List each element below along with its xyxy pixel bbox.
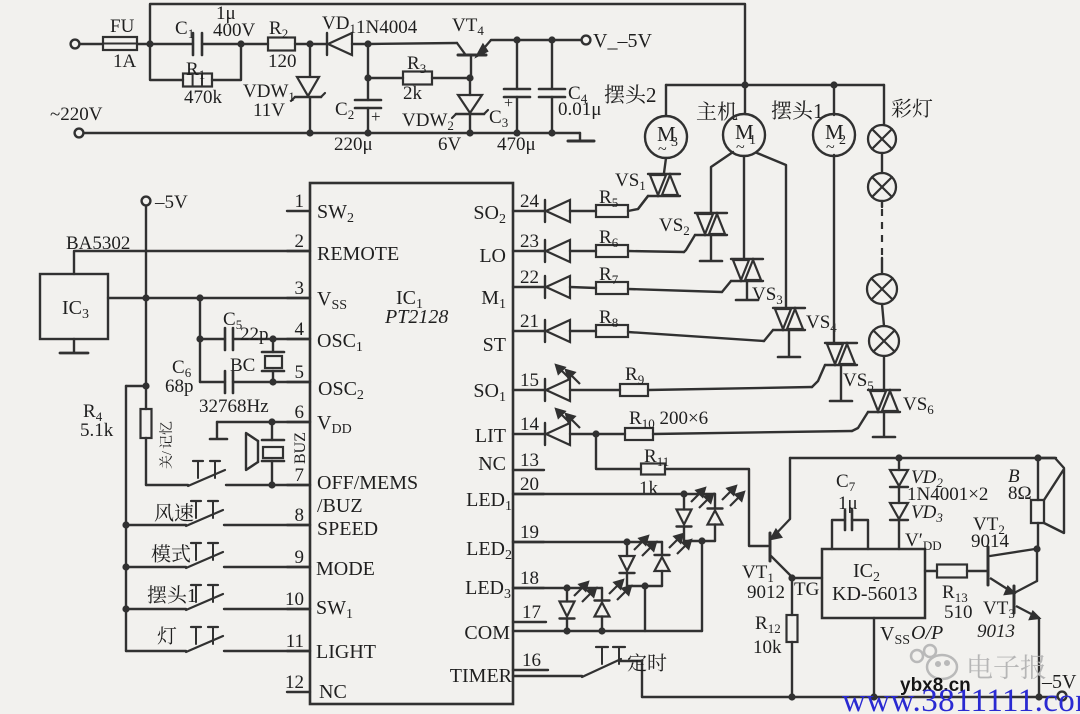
svg-text:470k: 470k — [184, 87, 223, 108]
resistor R5 — [596, 205, 628, 217]
wire — [881, 153, 883, 173]
capacitor C5 22p — [233, 338, 310, 340]
wire pair1 to COM rail — [701, 541, 703, 631]
svg-text:3: 3 — [295, 278, 305, 299]
svg-text:68p: 68p — [165, 376, 194, 397]
capacitor C1 — [192, 33, 195, 55]
svg-text:13: 13 — [520, 450, 539, 471]
triac VS6 — [868, 389, 900, 391]
svg-text:V_–5V: V_–5V — [593, 30, 652, 52]
zener VDW1 11V — [309, 44, 311, 76]
svg-text:ST: ST — [483, 334, 506, 356]
svg-text:22: 22 — [520, 267, 539, 288]
svg-text:COM: COM — [464, 622, 510, 644]
pin 14 stub — [513, 433, 544, 435]
watermark dian-zi-bao text — [969, 654, 1045, 679]
svg-text:3: 3 — [671, 135, 678, 150]
pin 1 stub — [287, 210, 310, 212]
triac VS4 — [757, 153, 786, 308]
svg-text:11V: 11V — [253, 100, 285, 121]
svg-text:/: / — [160, 451, 175, 455]
svg-text:REMOTE: REMOTE — [317, 243, 399, 265]
label bai-tou-1 (oscillate 1) — [772, 99, 824, 123]
svg-text:O/P: O/P — [911, 622, 943, 644]
resistor R4 5.1k — [145, 386, 147, 409]
svg-text:1A: 1A — [113, 51, 137, 72]
wire VSS branch vertical — [199, 298, 201, 382]
zener VDW2 6V — [469, 78, 471, 95]
pin 12 stub — [287, 691, 310, 693]
svg-text:22p: 22p — [240, 324, 269, 345]
svg-text:19: 19 — [520, 522, 539, 543]
wire IC3 to REMOTE pin2 — [74, 251, 310, 274]
resistor R10 — [625, 428, 653, 440]
pin 10 stub — [287, 608, 310, 610]
resistor R8 — [596, 325, 628, 337]
triac VS3 — [743, 156, 745, 259]
svg-text:400V: 400V — [213, 20, 256, 41]
node: R3/VT4 base/VDW2 junction — [466, 74, 473, 81]
svg-text:7: 7 — [295, 465, 305, 486]
LED pair 1 — [683, 494, 685, 510]
pin 19 stub — [513, 541, 544, 543]
svg-text:2: 2 — [295, 231, 305, 252]
svg-text:14: 14 — [520, 414, 540, 435]
label mo-shi (mode) — [152, 544, 191, 562]
terminal -5V bottom right — [1058, 692, 1067, 701]
pin 21 stub — [513, 330, 544, 332]
pin 13 stub — [513, 469, 544, 471]
switch timer (ding-shi) — [582, 659, 621, 677]
resistor R7 — [596, 282, 628, 294]
node: C3 on rail — [513, 129, 520, 136]
lamp 1 — [868, 125, 896, 153]
svg-text:32768Hz: 32768Hz — [199, 396, 269, 417]
svg-text:MODE: MODE — [316, 558, 375, 580]
svg-text:2: 2 — [839, 133, 846, 148]
svg-text:17: 17 — [522, 602, 541, 623]
speaker B 8ohm — [1034, 454, 1041, 461]
capacitor C7 1u — [832, 520, 845, 549]
label feng-su (speed) — [155, 503, 194, 521]
svg-text:KD-56013: KD-56013 — [832, 583, 918, 605]
svg-text:/BUZ: /BUZ — [317, 495, 363, 517]
node buzzer to pin7 — [268, 481, 275, 488]
diode row pin21 — [544, 320, 546, 342]
svg-text:PT2128: PT2128 — [384, 306, 448, 328]
pin 23 stub — [513, 250, 544, 252]
svg-text:10k: 10k — [753, 637, 782, 658]
svg-text:5.1k: 5.1k — [80, 420, 114, 441]
pin 3 stub — [287, 297, 310, 299]
svg-text:TIMER: TIMER — [450, 665, 513, 687]
svg-text:2k: 2k — [403, 83, 423, 104]
switch light — [126, 650, 186, 652]
ground stub IC3 — [73, 339, 75, 352]
wire — [882, 304, 884, 326]
pin 16 stub — [513, 669, 548, 671]
wire: VT4 emitter to -5V terminal — [491, 39, 581, 41]
svg-text:www.3811111.com: www.3811111.com — [842, 683, 1080, 714]
svg-text:5: 5 — [295, 362, 305, 383]
wire VDD pin6 — [217, 421, 310, 423]
pin 8 stub — [287, 524, 310, 526]
wire C1 to node — [202, 43, 241, 45]
wire top rail of audio section — [790, 457, 1056, 459]
lamp 2 — [868, 173, 896, 201]
watermark panda logo — [911, 645, 957, 679]
node VSS/C5 branch — [196, 294, 203, 301]
svg-text:9: 9 — [295, 547, 305, 568]
op-amp U3: IC3 receiver — [40, 274, 108, 339]
pin 2 stub — [287, 250, 310, 252]
wire COM rail pin17 — [513, 630, 702, 632]
wire -5V vertical — [145, 206, 147, 386]
wire VS6 lower terminal — [883, 412, 885, 436]
diode row pin23 — [544, 240, 546, 262]
pin 18 stub — [513, 587, 544, 589]
svg-text:~: ~ — [826, 139, 835, 156]
label ding-shi (timer) — [628, 653, 667, 671]
node: VD1 cathode / C2 junction — [364, 40, 371, 47]
wire VS5 lower terminal — [840, 365, 842, 400]
node: main rail joins motor rail — [741, 81, 748, 88]
resistor R13 510 — [925, 570, 937, 572]
wire fuse to node — [137, 43, 193, 45]
svg-text:6: 6 — [295, 402, 305, 423]
transistor VT2 9014 — [987, 547, 990, 585]
switch speed — [122, 521, 129, 528]
node pair3 right on rail — [598, 627, 605, 634]
svg-text:SPEED: SPEED — [317, 518, 378, 540]
switch swing — [122, 605, 129, 612]
label bai-tou-1 (swing) — [148, 585, 197, 607]
pin 11 stub — [287, 650, 310, 652]
svg-text:15: 15 — [520, 370, 539, 391]
resistor R9 — [620, 384, 648, 396]
wire dashed lamp chain — [881, 201, 883, 207]
svg-text:1: 1 — [295, 191, 305, 212]
svg-text:~: ~ — [658, 141, 667, 158]
wire IC2 ground — [873, 618, 875, 697]
motor M3 — [665, 85, 667, 116]
fuse FU 1A — [103, 37, 137, 50]
wire lamp4 to VS6 — [883, 356, 885, 390]
svg-text:8Ω: 8Ω — [1008, 483, 1032, 504]
wire — [570, 433, 625, 435]
svg-text:R10 200×6: R10 200×6 — [629, 408, 708, 431]
node IC2 on rail — [870, 693, 877, 700]
wire pair2 to COM rail — [644, 586, 646, 631]
transistor VT3 9013 — [1013, 586, 1016, 613]
terminal: V- -5V output — [582, 36, 591, 45]
wire VS6 gate — [852, 412, 868, 431]
node pair2 bottom — [641, 582, 648, 589]
wire branch to key rail — [126, 385, 146, 387]
diode row pin22 — [544, 276, 546, 298]
buzzer horn — [246, 433, 258, 470]
wire: motor supply rail — [666, 84, 884, 86]
resistor R2 — [241, 43, 268, 45]
svg-text:510: 510 — [944, 602, 973, 623]
diode VD1 1N4004 — [310, 43, 327, 45]
svg-text:11: 11 — [286, 631, 304, 652]
wire: top rail to motor feed — [150, 4, 745, 85]
wire C5 to VSS branch — [200, 338, 225, 340]
svg-text:LIGHT: LIGHT — [316, 641, 376, 663]
node R4 top — [142, 382, 149, 389]
capacitor C3 470u — [513, 36, 520, 43]
node VSS/-5V — [142, 294, 149, 301]
resistor R11 1k — [596, 434, 641, 469]
wire pin16 TIMER — [513, 675, 582, 677]
node pair3 top-left — [563, 584, 570, 591]
pin 5 stub — [287, 381, 310, 383]
crystal BC 32768Hz — [272, 339, 274, 352]
svg-text:21: 21 — [520, 311, 539, 332]
node: C4 on rail — [548, 129, 555, 136]
switch off/memory — [146, 484, 188, 486]
LED row pin15 — [544, 379, 546, 401]
label deng (light) — [158, 626, 177, 644]
node pair3 left on rail — [563, 627, 570, 634]
svg-text:4: 4 — [295, 319, 305, 340]
node pair2 top-left — [623, 538, 630, 545]
node: VDW2 on rail — [466, 129, 473, 136]
diode VD2 — [895, 454, 902, 461]
svg-text:TG: TG — [794, 579, 820, 600]
wire: bottom AC rail — [84, 132, 580, 134]
svg-text:~220V: ~220V — [50, 104, 103, 125]
node VT3 emitter on rail — [1035, 693, 1042, 700]
wire timer to bottom rail — [620, 661, 642, 697]
label cai-deng (coloured lamps) — [892, 99, 933, 118]
node pair1 top-left — [680, 490, 687, 497]
node R11 tap — [592, 430, 599, 437]
motor M2 — [830, 81, 837, 88]
svg-text:1k: 1k — [639, 478, 659, 499]
wire VS3 gate — [722, 281, 731, 292]
diode row pin24 — [544, 200, 546, 222]
wire VS4 lower terminal — [788, 330, 790, 356]
pin 20 stub — [513, 493, 544, 495]
svg-text:23: 23 — [520, 231, 539, 252]
svg-text:1N4004: 1N4004 — [356, 17, 418, 38]
svg-text:LO: LO — [479, 245, 506, 267]
open stub near buzzer — [216, 422, 218, 438]
svg-text:120: 120 — [268, 51, 297, 72]
op-amp U1: IC1 PT2128 body — [310, 183, 513, 704]
svg-text:VDW2: VDW2 — [402, 110, 454, 133]
pin 6 stub — [287, 421, 310, 423]
wire C6 to VSS branch — [200, 381, 225, 383]
svg-text:6V: 6V — [438, 134, 462, 155]
svg-text:+: + — [504, 95, 513, 112]
wire IC3 output to VSS pin3 — [108, 297, 310, 299]
motor M1 — [744, 85, 746, 114]
node VDD/buzzer — [268, 418, 275, 425]
svg-text:8: 8 — [295, 505, 305, 526]
terminal: AC neutral input — [75, 129, 84, 138]
wire VS4 gate — [764, 330, 773, 341]
svg-text:FU: FU — [110, 16, 135, 37]
LED row pin14 — [544, 423, 546, 445]
ic IC2 KD-56013 — [822, 549, 925, 618]
label zhu-ji (main motor) — [697, 101, 738, 120]
svg-text:NC: NC — [319, 681, 347, 703]
svg-text:16: 16 — [522, 650, 541, 671]
label guan/jiyi (off/memory, vertical) — [159, 421, 175, 468]
diode VD3 — [890, 503, 908, 519]
node: C1/R1 left junction — [146, 40, 153, 47]
node VT1 collector / TG — [788, 574, 795, 581]
transistor VT1 9012 — [769, 533, 772, 561]
pin 22 stub — [513, 286, 544, 288]
triac VS2 — [711, 152, 733, 213]
LED pair 3 — [566, 588, 568, 602]
wire VS2 lower terminal — [710, 235, 712, 260]
svg-text:20: 20 — [520, 474, 539, 495]
wire — [570, 389, 620, 391]
resistor R1 — [150, 44, 183, 80]
pin 9 stub — [287, 566, 310, 568]
wire VS1 gate — [638, 196, 648, 209]
wire pin20 to LED pair 1 — [513, 493, 715, 495]
wire: lamp chain feed — [883, 85, 885, 125]
svg-text:470μ: 470μ — [497, 134, 536, 155]
node pair1 bottom — [698, 537, 705, 544]
node crystal bottom — [269, 378, 276, 385]
capacitor C4 0.01u — [548, 36, 555, 43]
svg-text:9014: 9014 — [971, 531, 1010, 552]
svg-text:BUZ: BUZ — [292, 432, 309, 464]
svg-text:LIT: LIT — [475, 425, 506, 447]
node: C1/R1 right junction — [237, 40, 244, 47]
wire VS3 lower terminal — [746, 281, 748, 299]
wire VS5 gate — [812, 365, 825, 387]
svg-text:9013: 9013 — [977, 621, 1015, 642]
lamp 3 — [881, 258, 883, 274]
triac VS1 — [664, 158, 666, 173]
LED pair 2 — [626, 542, 628, 556]
node: R2/VD1/VDW1 junction — [306, 40, 313, 47]
triac VS5 — [833, 155, 835, 343]
svg-text:0.01μ: 0.01μ — [558, 99, 601, 120]
svg-text:+: + — [371, 107, 381, 126]
wire VS2 gate — [684, 235, 695, 252]
svg-text:1: 1 — [749, 133, 756, 148]
capacitor C2 220u — [367, 44, 369, 100]
buzzer BUZ piezo disc — [271, 422, 273, 440]
node collectors / speaker — [1033, 545, 1040, 552]
pin 4 stub — [287, 338, 310, 340]
svg-text:24: 24 — [520, 191, 540, 212]
terminal -5V — [142, 197, 151, 206]
terminal: AC live input — [71, 40, 80, 49]
svg-text:9012: 9012 — [747, 582, 785, 603]
wire pin18 to LED pair 3 — [513, 587, 602, 589]
node crystal top — [269, 335, 276, 342]
wire bottom common rail — [642, 696, 1062, 698]
pin 24 stub — [513, 210, 544, 212]
svg-text:~: ~ — [736, 139, 745, 156]
svg-text:NC: NC — [478, 453, 506, 475]
resistor R12 10k — [791, 578, 793, 615]
svg-text:OFF/MEMS: OFF/MEMS — [317, 472, 418, 494]
resistor R3 2k — [364, 74, 371, 81]
svg-text:12: 12 — [285, 672, 304, 693]
node: C2 on rail — [364, 129, 371, 136]
node: VDW1 on rail — [306, 129, 313, 136]
svg-text:1μ: 1μ — [838, 493, 858, 514]
wire key common rail — [125, 386, 127, 651]
svg-text:2: 2 — [646, 83, 657, 107]
svg-text:10: 10 — [285, 589, 304, 610]
resistor R6 — [596, 245, 628, 257]
ground stub — [579, 133, 581, 140]
pin 15 stub — [513, 389, 544, 391]
node C5/VSS — [196, 335, 203, 342]
capacitor C6 68p — [233, 381, 310, 383]
switch mode — [122, 563, 129, 570]
transistor VT4 — [368, 43, 457, 44]
wire TG to IC2 — [792, 577, 822, 579]
pin 7 stub — [287, 484, 310, 486]
lamp 4 — [869, 326, 899, 356]
svg-text:–5V: –5V — [154, 192, 188, 213]
svg-text:18: 18 — [520, 568, 539, 589]
svg-text:220μ: 220μ — [334, 134, 373, 155]
node R12 on rail — [788, 693, 795, 700]
wire pin19 to LED pair 2 — [513, 541, 662, 543]
label bai-tou-2 (oscillate 2) — [605, 83, 657, 107]
pin 17 stub — [513, 621, 546, 623]
